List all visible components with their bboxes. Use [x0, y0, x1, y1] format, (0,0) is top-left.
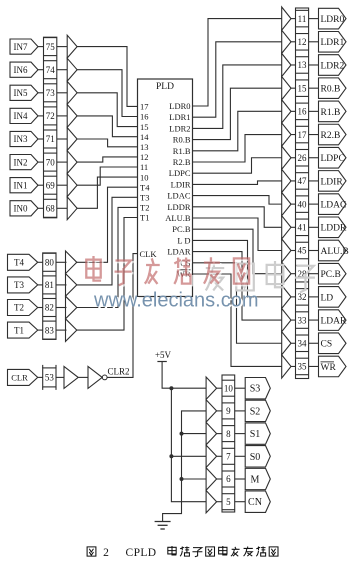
svg-text:26: 26: [298, 153, 308, 163]
svg-text:15: 15: [140, 122, 149, 132]
pin 68: [44, 199, 57, 217]
input tag T2: [8, 300, 38, 316]
output tag LDAR: [319, 310, 348, 331]
svg-text:69: 69: [46, 180, 56, 190]
svg-text:7: 7: [226, 452, 231, 462]
wire buffer to pin 10: [217, 387, 222, 389]
pin 41: [296, 219, 309, 236]
wire buffer to pin 13: [291, 64, 296, 66]
wire LDAR from PLD to pin 33: [193, 252, 282, 320]
wire pin 75 to buffer: [57, 46, 67, 48]
output buffer for ALU.B: [282, 239, 291, 262]
svg-text:L D: L D: [177, 235, 190, 245]
wire T3 to pin 81: [38, 284, 43, 286]
wire pin 53 to buffer: [56, 376, 64, 378]
svg-text:2: 2: [103, 547, 109, 559]
pin 82: [43, 299, 56, 317]
wire pin 12 to tag LDR1: [309, 41, 319, 43]
buffer for IN5: [67, 81, 77, 104]
wire pin 35 to tag WR: [309, 365, 319, 367]
svg-text:6: 6: [226, 474, 231, 484]
svg-text:R0.B: R0.B: [321, 85, 341, 95]
wire pin 71 to buffer: [57, 138, 67, 140]
svg-text:S0: S0: [250, 452, 261, 463]
wire rail to S1 row: [182, 433, 207, 435]
svg-text:IN6: IN6: [14, 65, 28, 75]
wire buffer to pin 9: [217, 410, 222, 412]
wire LDPC from PLD to pin 26: [193, 158, 282, 173]
output buffer for LDR2: [282, 53, 291, 76]
buffer for S2: [206, 400, 217, 422]
svg-text:16: 16: [298, 107, 308, 117]
wire buffer to pin 6: [217, 478, 222, 480]
wire IN4 buffer to PLD pin 14: [77, 116, 137, 137]
svg-text:33: 33: [298, 315, 308, 325]
svg-text:CN: CN: [248, 497, 262, 508]
pin 75: [44, 38, 57, 56]
svg-text:R0.B: R0.B: [173, 135, 191, 145]
svg-text:IN3: IN3: [14, 134, 28, 144]
buffer for IN0: [67, 197, 77, 220]
buffer for T3: [66, 274, 77, 297]
wire buffer to pin 5: [217, 501, 222, 503]
svg-text:LDDR: LDDR: [321, 224, 348, 234]
output tag CS: [319, 333, 347, 354]
pin 10: [222, 380, 235, 396]
wire IN1 buffer to PLD pin 11: [77, 167, 137, 185]
wire pin 33 to tag LDAR: [309, 319, 319, 321]
svg-text:10: 10: [224, 383, 234, 393]
wire pin 32 to tag LD: [309, 296, 319, 298]
junction dot +5V rail at S0: [169, 454, 173, 458]
svg-text:T3: T3: [140, 193, 149, 203]
wire buffer to pin 45: [291, 250, 296, 252]
wire LDR1 from PLD to pin 12: [193, 42, 282, 117]
wire pin 73 to buffer: [57, 92, 67, 94]
svg-text:WR: WR: [321, 363, 337, 373]
input tag IN5: [10, 85, 38, 100]
wire LDIR from PLD to pin 47: [193, 181, 282, 184]
svg-text:32: 32: [298, 292, 307, 302]
pin 17: [296, 126, 309, 143]
wire pin 74 to buffer: [57, 69, 67, 71]
output buffer for PC.B: [282, 262, 291, 285]
svg-text:LD: LD: [321, 293, 334, 303]
wire T2 to pin 82: [38, 307, 43, 309]
svg-text:LDIR: LDIR: [171, 179, 191, 189]
wire LDDR from PLD to pin 41: [193, 207, 282, 228]
wire CS from PLD to pin 34: [193, 263, 282, 343]
svg-text:IN1: IN1: [14, 180, 28, 190]
wire ALU.B from PLD to pin 45: [193, 218, 282, 251]
buffer for M: [206, 468, 217, 490]
output tag S3: [245, 378, 270, 399]
wire pin 83 to buffer: [56, 329, 67, 331]
svg-text:LDAC: LDAC: [167, 191, 190, 201]
svg-text:IN2: IN2: [14, 157, 28, 167]
output buffer for LDAR: [282, 308, 291, 331]
svg-text:14: 14: [140, 132, 149, 142]
connector strip J1 (pins 75-68): [44, 37, 57, 218]
svg-text:CS: CS: [321, 340, 333, 350]
svg-text:T3: T3: [14, 280, 24, 290]
svg-text:IN4: IN4: [14, 111, 28, 121]
pin 69: [44, 176, 57, 194]
output tag R0.B: [319, 78, 347, 99]
svg-text:PLD: PLD: [156, 82, 174, 92]
wire pin 17 to tag R2.B: [309, 134, 319, 136]
pin 5: [222, 494, 235, 510]
svg-text:LDPC: LDPC: [169, 168, 191, 178]
pin 6: [222, 471, 235, 487]
wire pin 47 to tag LDIR: [309, 180, 319, 182]
wire IN4 to pin 72: [38, 115, 44, 117]
output buffer for WR: [282, 355, 291, 378]
wire T4 buffer to PLD pin T4: [77, 187, 138, 262]
wire IN0 to pin 68: [38, 207, 44, 209]
svg-text:13: 13: [298, 60, 308, 70]
svg-text:S2: S2: [250, 406, 261, 417]
svg-text:S3: S3: [250, 384, 261, 395]
input tag T3: [8, 277, 38, 293]
connector strip J4 (pins 10-5): [222, 375, 235, 512]
output buffer for LDAC: [282, 193, 291, 216]
wire buffer to pin 33: [291, 319, 296, 321]
svg-text:T1: T1: [14, 325, 24, 335]
output tag CN: [245, 491, 270, 512]
svg-text:72: 72: [46, 111, 55, 121]
svg-text:12: 12: [298, 37, 307, 47]
wire rail to S0 row: [171, 455, 206, 457]
svg-text:T4: T4: [140, 182, 150, 192]
wire IN2 to pin 70: [38, 161, 44, 163]
output tag R2.B: [319, 124, 347, 145]
svg-text:LDPC: LDPC: [321, 154, 345, 164]
pin 32: [296, 289, 309, 306]
wire buffer to pin 41: [291, 226, 296, 228]
wire pin 81 to buffer: [56, 284, 67, 286]
output buffer for LD: [282, 285, 291, 308]
wire IN5 buffer to PLD pin 15: [77, 93, 137, 127]
output tag LDDR: [319, 217, 348, 238]
wire buffer to pin 34: [291, 342, 296, 344]
wire buffer to inverter: [78, 376, 88, 378]
svg-text:S1: S1: [250, 429, 261, 440]
pin 34: [296, 335, 309, 352]
pin 73: [44, 84, 57, 102]
pin 81: [43, 276, 56, 294]
power +5V: [155, 350, 172, 362]
junction dot ground rail at S1: [180, 432, 184, 436]
wire LDAC from PLD to pin 40: [193, 196, 282, 205]
wire pin 28 to tag PC.B: [309, 273, 319, 275]
svg-text:70: 70: [46, 157, 56, 167]
pin 53: [43, 365, 56, 390]
PLD U1: [138, 79, 193, 297]
svg-text:LDDR: LDDR: [167, 202, 190, 212]
buffer for CN: [206, 491, 217, 513]
wire pin 5 to tag CN: [235, 501, 246, 503]
wire pin 80 to buffer: [56, 261, 67, 263]
wire IN6 to pin 74: [38, 69, 44, 71]
buffer for IN7: [67, 35, 77, 58]
inverter U3 (CLR2): [88, 366, 107, 388]
output tag LD: [319, 287, 347, 308]
wire buffer to pin 40: [291, 203, 296, 205]
buffer for IN4: [67, 105, 77, 128]
wire pin 70 to buffer: [57, 161, 67, 163]
svg-text:+5V: +5V: [155, 350, 172, 360]
output tag LDAC: [319, 194, 347, 215]
svg-text:34: 34: [298, 338, 308, 348]
wire pin 40 to tag LDAC: [309, 203, 319, 205]
buffer for S0: [206, 445, 217, 467]
wire R1.B from PLD to pin 16: [193, 111, 282, 150]
input tag IN0: [10, 201, 38, 216]
wire pin 82 to buffer: [56, 307, 67, 309]
svg-text:41: 41: [298, 223, 307, 233]
svg-text:16: 16: [140, 112, 149, 122]
svg-text:53: 53: [45, 373, 55, 383]
wire +5V to S3 row: [162, 362, 206, 389]
pin 45: [296, 242, 309, 259]
wire LD from PLD to pin 32: [193, 240, 282, 296]
buffer for S3: [206, 377, 217, 399]
wire PC.B from PLD to pin 28: [193, 229, 282, 273]
pin 74: [44, 61, 57, 79]
svg-text:R2.B: R2.B: [321, 131, 341, 141]
wire buffer to pin 35: [291, 365, 296, 367]
svg-text:17: 17: [298, 130, 308, 140]
wire IN2 buffer to PLD pin 12: [77, 157, 137, 162]
svg-text:IN7: IN7: [14, 42, 28, 52]
svg-text:83: 83: [45, 325, 55, 335]
wire WR from PLD to pin 35: [193, 274, 282, 366]
pin 8: [222, 426, 235, 442]
output buffer for LDR1: [282, 30, 291, 53]
wire pin 69 to buffer: [57, 184, 67, 186]
svg-text:LDR0: LDR0: [169, 101, 190, 111]
svg-text:ALU.B: ALU.B: [321, 247, 349, 257]
output tag WR: [319, 356, 347, 377]
wire T1 buffer to PLD pin T1: [77, 218, 138, 331]
wire buffer to pin 26: [291, 157, 296, 159]
wire IN3 to pin 71: [38, 138, 44, 140]
input tag IN7: [10, 39, 38, 54]
svg-text:75: 75: [46, 42, 56, 52]
wire buffer to pin 16: [291, 110, 296, 112]
svg-text:LDR1: LDR1: [169, 112, 190, 122]
svg-text:82: 82: [45, 303, 54, 313]
connector strip J3 (pins 11-35): [296, 8, 309, 379]
wire IN1 to pin 69: [38, 184, 44, 186]
output buffer for R1.B: [282, 100, 291, 123]
svg-text:71: 71: [46, 134, 55, 144]
wire R2.B from PLD to pin 17: [193, 135, 282, 162]
svg-text:IN0: IN0: [14, 204, 28, 214]
ground: [155, 522, 171, 530]
wire rail to M row: [182, 478, 207, 480]
svg-text:CLR2: CLR2: [107, 366, 129, 376]
pin 83: [43, 321, 56, 339]
buffer for T2: [66, 296, 77, 319]
output tag R1.B: [319, 101, 347, 122]
pin 28: [296, 265, 309, 282]
svg-text:8: 8: [226, 429, 231, 439]
wire buffer to pin 17: [291, 134, 296, 136]
svg-text:T2: T2: [14, 303, 24, 313]
svg-text:35: 35: [298, 362, 308, 372]
pin 12: [296, 34, 309, 51]
output buffer for LDDR: [282, 216, 291, 239]
wire buffer to pin 11: [291, 18, 296, 20]
svg-text:IN5: IN5: [14, 88, 28, 98]
svg-text:11: 11: [298, 14, 307, 24]
pin 47: [296, 173, 309, 190]
output tag PC.B: [319, 263, 347, 284]
junction dot +5V rail at S3: [169, 386, 173, 390]
wire T3 buffer to PLD pin T3: [77, 197, 138, 285]
output tag LDIR: [319, 171, 347, 192]
svg-text:9: 9: [226, 406, 231, 416]
output tag LDR0: [319, 8, 347, 29]
buffer for T1: [66, 319, 77, 342]
wire +5V rail: [171, 388, 206, 502]
svg-text:CLR: CLR: [11, 373, 28, 383]
wire R0.B from PLD to pin 15: [193, 88, 282, 139]
svg-text:LDAR: LDAR: [321, 316, 348, 326]
wire pin 10 to tag S3: [235, 387, 246, 389]
svg-text:LDIR: LDIR: [321, 177, 344, 187]
svg-text:LDAC: LDAC: [321, 201, 347, 211]
svg-text:LDR2: LDR2: [169, 123, 190, 133]
pin 9: [222, 403, 235, 419]
buffer for IN6: [67, 58, 77, 81]
wire buffer to pin 28: [291, 273, 296, 275]
wire pin 15 to tag R0.B: [309, 87, 319, 89]
wire pin 7 to tag S0: [235, 455, 246, 457]
svg-text:17: 17: [140, 102, 149, 112]
svg-text:15: 15: [298, 83, 308, 93]
output tag S2: [245, 400, 270, 421]
wire LDR2 from PLD to pin 13: [193, 65, 282, 128]
pin 11: [296, 10, 309, 27]
svg-text:R2.B: R2.B: [173, 157, 191, 167]
svg-text:10: 10: [140, 172, 149, 182]
input tag T1: [8, 322, 38, 338]
buffer for IN3: [67, 128, 77, 151]
svg-text:T4: T4: [14, 258, 24, 268]
wire IN7 to pin 75: [38, 46, 44, 48]
pin 16: [296, 103, 309, 120]
wire buffer to pin 47: [291, 180, 296, 182]
svg-text:40: 40: [298, 199, 308, 209]
svg-text:T2: T2: [140, 203, 149, 213]
wire IN5 to pin 73: [38, 92, 44, 94]
output tag S0: [245, 446, 270, 467]
output buffer for R0.B: [282, 77, 291, 100]
pin 72: [44, 107, 57, 125]
input tag IN1: [10, 178, 38, 193]
pin 13: [296, 57, 309, 74]
wire pin 13 to tag LDR2: [309, 64, 319, 66]
wire pin 16 to tag R1.B: [309, 110, 319, 112]
output tag M: [245, 468, 270, 489]
svg-text:ALU.B: ALU.B: [165, 213, 191, 223]
pin 26: [296, 149, 309, 166]
svg-text:47: 47: [298, 176, 308, 186]
wire pin 72 to buffer: [57, 115, 67, 117]
pin 71: [44, 130, 57, 148]
pin 15: [296, 80, 309, 97]
svg-text:www.elecians.com: www.elecians.com: [93, 290, 259, 312]
svg-text:R1.B: R1.B: [321, 108, 341, 118]
svg-text:LDAR: LDAR: [167, 247, 190, 257]
output tag LDPC: [319, 147, 347, 168]
output tag S1: [245, 423, 270, 444]
wire IN6 buffer to PLD pin 16: [77, 70, 137, 117]
pin 80: [43, 253, 56, 271]
output buffer for LDIR: [282, 169, 291, 192]
junction dot ground rail at M: [180, 477, 184, 481]
output buffer for LDR0: [282, 7, 291, 30]
pin 40: [296, 196, 309, 213]
output tag LDR2: [319, 55, 347, 76]
input tag T4: [8, 254, 38, 270]
buffer for IN1: [67, 174, 77, 197]
svg-text:13: 13: [140, 142, 149, 152]
svg-text:PC.B: PC.B: [172, 224, 191, 234]
svg-text:73: 73: [46, 88, 56, 98]
wire T1 to pin 83: [38, 329, 43, 331]
wire buffer to pin 7: [217, 455, 222, 457]
svg-text:80: 80: [45, 258, 55, 268]
svg-text:M: M: [251, 475, 260, 486]
wire T4 to pin 80: [38, 261, 43, 263]
wire CLR2 to PLD CLK pin: [107, 254, 137, 378]
wire IN3 buffer to PLD pin 13: [77, 139, 137, 147]
wire IN0 buffer to PLD pin 10: [77, 177, 137, 208]
wire IN7 buffer to PLD pin 17: [77, 47, 137, 107]
pin 33: [296, 312, 309, 329]
input tag IN6: [10, 62, 38, 77]
svg-text:CPLD: CPLD: [126, 547, 157, 559]
buffer U2 for CLR: [64, 366, 78, 388]
svg-text:5: 5: [226, 497, 231, 507]
buffer for S1: [206, 422, 217, 444]
wire pin 8 to tag S1: [235, 433, 246, 435]
wire buffer to pin 32: [291, 296, 296, 298]
output tag LDR1: [319, 31, 347, 52]
output tag ALU.B: [319, 240, 349, 261]
wire pin 41 to tag LDDR: [309, 226, 319, 228]
wire CLR to pin 53: [38, 376, 43, 378]
pin 7: [222, 448, 235, 464]
wire pin 26 to tag LDPC: [309, 157, 319, 159]
wire pin 34 to tag CS: [309, 342, 319, 344]
output buffer for CS: [282, 332, 291, 355]
wire buffer to pin 15: [291, 87, 296, 89]
wire ground rail: [163, 411, 207, 522]
wire pin 11 to tag LDR0: [309, 18, 319, 20]
svg-text:68: 68: [46, 204, 56, 214]
svg-text:LDR2: LDR2: [321, 61, 345, 71]
output buffer for LDPC: [282, 146, 291, 169]
svg-text:81: 81: [45, 280, 54, 290]
pin 35: [296, 358, 309, 375]
svg-text:45: 45: [298, 246, 308, 256]
input tag IN2: [10, 155, 38, 170]
